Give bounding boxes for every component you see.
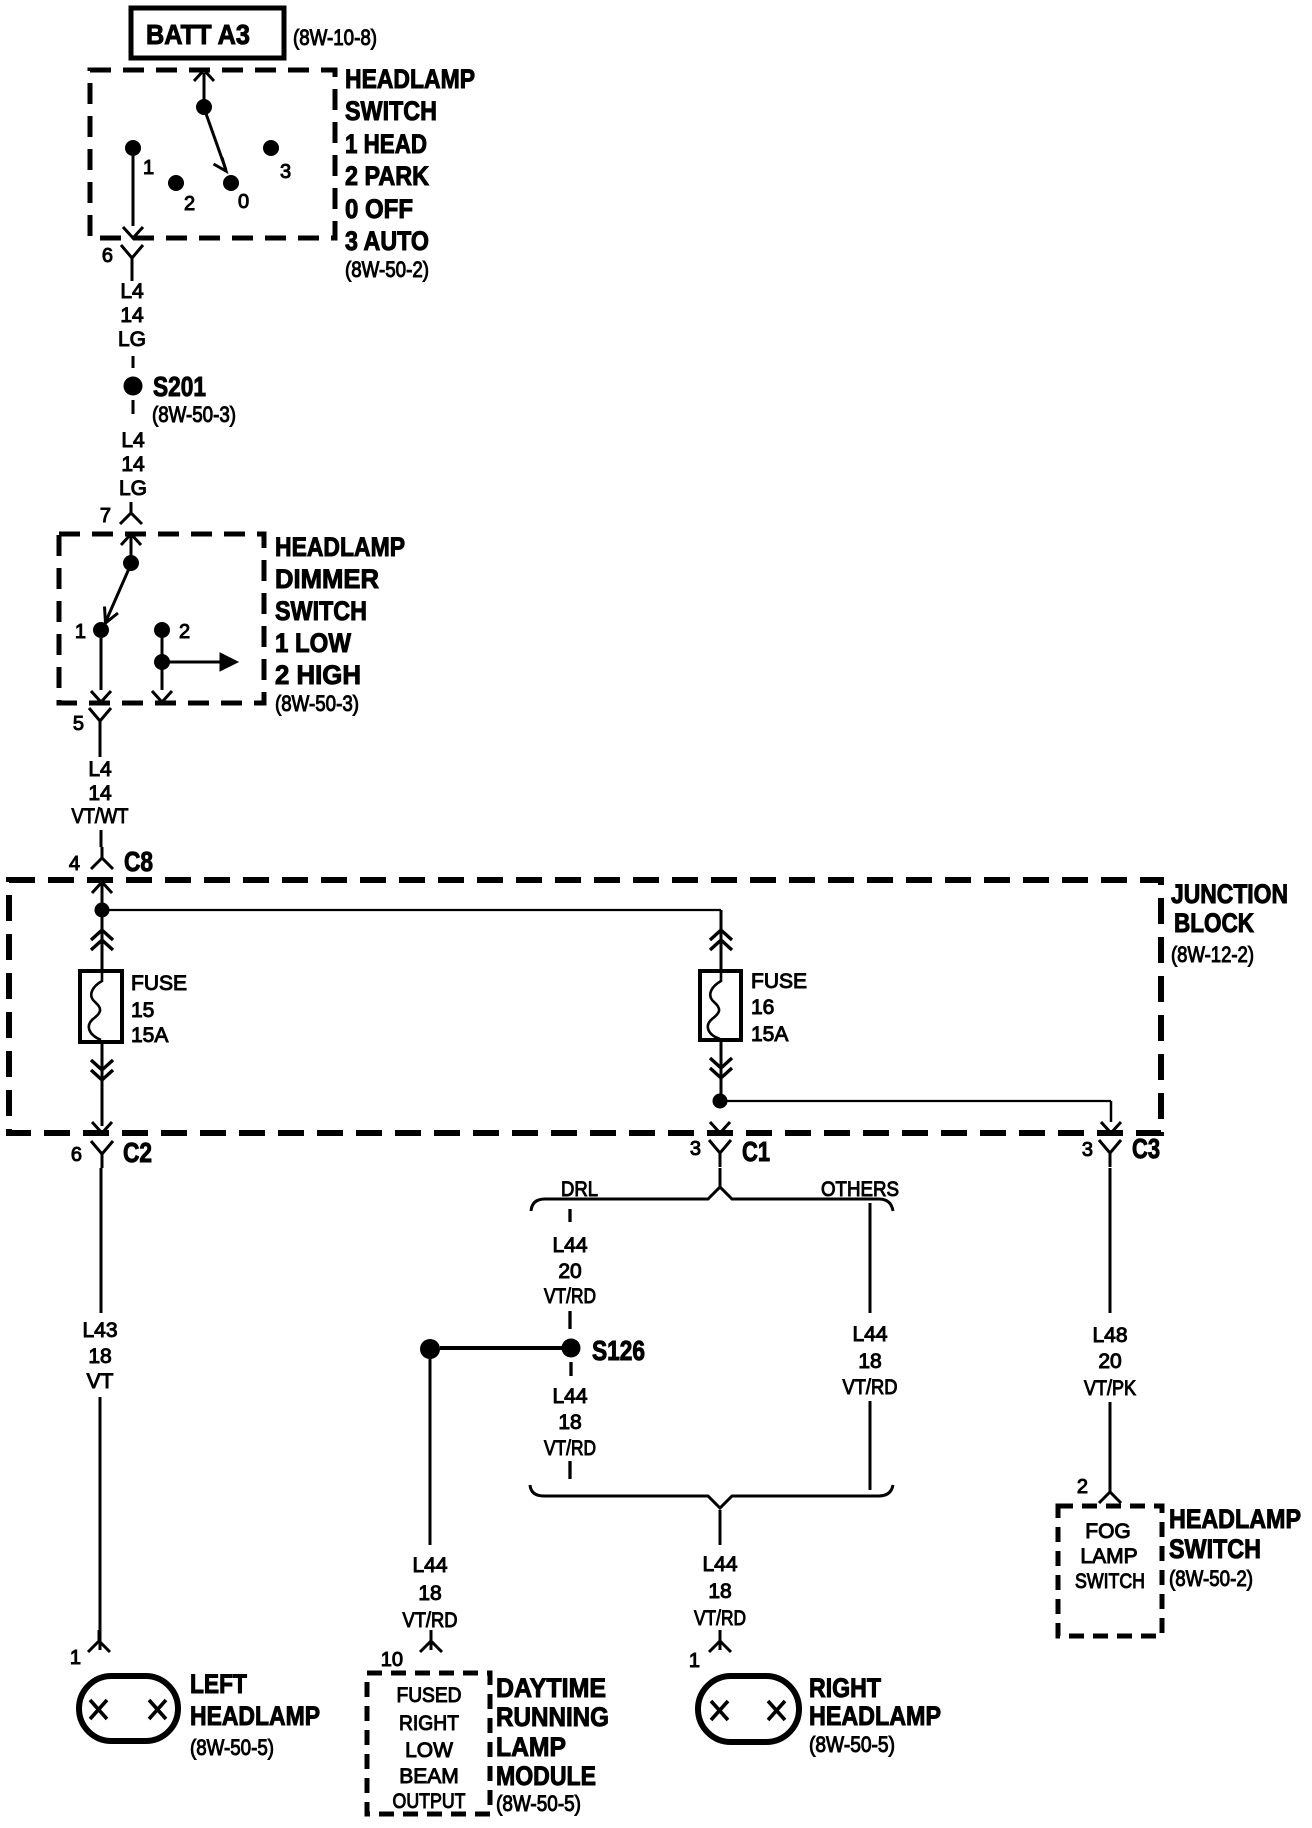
left headlamp filament X left bbox=[90, 1700, 107, 1719]
svg-text:20: 20 bbox=[1098, 1350, 1121, 1373]
svg-text:(8W-50-3): (8W-50-3) bbox=[152, 402, 236, 427]
svg-text:VT/WT: VT/WT bbox=[72, 805, 129, 828]
dimmer lever arrowhead bbox=[105, 607, 119, 624]
wire from dimmer contact 1 down bbox=[100, 638, 103, 690]
lever arrowhead bbox=[214, 158, 227, 172]
fuse 16 element squiggle bbox=[708, 971, 721, 1039]
branch wire turning down to fuse 16 bbox=[720, 910, 723, 971]
contact 0 bbox=[223, 175, 239, 191]
svg-text:HEADLAMP: HEADLAMP bbox=[809, 1701, 941, 1731]
svg-text:(8W-50-5): (8W-50-5) bbox=[809, 1732, 895, 1757]
svg-text:S126: S126 bbox=[592, 1335, 645, 1366]
svg-text:1: 1 bbox=[689, 1650, 700, 1672]
svg-text:LAMP: LAMP bbox=[1080, 1545, 1137, 1568]
svg-text:VT/PK: VT/PK bbox=[1084, 1377, 1136, 1400]
svg-text:SWITCH: SWITCH bbox=[275, 596, 367, 626]
fuse 15 box bbox=[80, 971, 122, 1042]
svg-text:FUSE: FUSE bbox=[751, 970, 807, 993]
svg-text:2: 2 bbox=[184, 193, 195, 215]
arrowhead up at switch box top border bbox=[194, 70, 214, 81]
svg-text:6: 6 bbox=[102, 245, 113, 267]
dimmer contact 1 bbox=[93, 622, 109, 638]
svg-text:2 PARK: 2 PARK bbox=[345, 161, 429, 191]
bus wire from fuse 16 node to C3 bbox=[720, 1100, 1111, 1102]
svg-text:10: 10 bbox=[381, 1649, 403, 1671]
svg-text:FUSED: FUSED bbox=[397, 1684, 462, 1707]
svg-text:18: 18 bbox=[858, 1350, 881, 1373]
svg-text:S201: S201 bbox=[153, 371, 206, 402]
svg-text:15A: 15A bbox=[131, 1024, 168, 1047]
svg-text:20: 20 bbox=[558, 1260, 581, 1283]
svg-text:JUNCTION: JUNCTION bbox=[1171, 879, 1288, 909]
svg-text:L44: L44 bbox=[552, 1385, 587, 1408]
connector pin 6 (female) bbox=[121, 245, 143, 272]
fog lamp switch dashed box bbox=[1058, 1506, 1162, 1636]
svg-text:L4: L4 bbox=[121, 429, 145, 452]
dimmer high-beam arrow wire bbox=[162, 661, 220, 664]
svg-text:15: 15 bbox=[131, 999, 154, 1022]
svg-text:BLOCK: BLOCK bbox=[1174, 908, 1254, 938]
svg-text:VT/RD: VT/RD bbox=[544, 1437, 596, 1460]
svg-text:3: 3 bbox=[690, 1138, 701, 1160]
arrowhead down at C1 exit bbox=[710, 1122, 730, 1133]
connector C8 (male) bbox=[91, 847, 113, 869]
svg-text:(8W-10-8): (8W-10-8) bbox=[293, 25, 377, 50]
connector chevrons below fuse 15 bbox=[91, 1060, 113, 1080]
svg-text:LOW: LOW bbox=[405, 1739, 453, 1762]
connector pin 7 (male) bbox=[120, 502, 142, 524]
svg-text:2: 2 bbox=[1077, 1476, 1088, 1498]
DRL branch wire segment bbox=[568, 1209, 571, 1222]
fuse 15 element squiggle bbox=[89, 971, 102, 1040]
svg-text:1: 1 bbox=[70, 1647, 81, 1669]
left headlamp bulb outline bbox=[79, 1676, 178, 1741]
OTHERS branch wire upper bbox=[869, 1203, 872, 1313]
svg-text:C3: C3 bbox=[1132, 1133, 1160, 1164]
dimmer junction on contact 2 wire bbox=[154, 654, 170, 670]
svg-text:L44: L44 bbox=[702, 1553, 737, 1576]
headlamp dimmer switch dashed box bbox=[59, 534, 264, 703]
svg-text:(8W-50-3): (8W-50-3) bbox=[275, 691, 359, 716]
wire to right headlamp bbox=[719, 1632, 722, 1650]
svg-text:DAYTIME: DAYTIME bbox=[496, 1673, 606, 1703]
wire segment below S201 bbox=[132, 400, 135, 414]
svg-text:FUSE: FUSE bbox=[131, 972, 187, 995]
svg-text:L48: L48 bbox=[1092, 1324, 1127, 1347]
svg-text:L43: L43 bbox=[82, 1319, 117, 1342]
svg-text:2: 2 bbox=[179, 621, 190, 643]
wire from contact 1 down to pin 6 bbox=[132, 156, 135, 226]
svg-text:DIMMER: DIMMER bbox=[275, 564, 379, 594]
svg-text:7: 7 bbox=[100, 505, 111, 527]
arrowhead down at dimmer bottom border bbox=[91, 691, 111, 702]
wire from switch wiper to BATT A3 bbox=[203, 73, 206, 107]
bus wire from node to fuse 16 branch bbox=[102, 909, 721, 911]
wire S126 to DRL module node bbox=[440, 1346, 562, 1350]
svg-text:18: 18 bbox=[88, 1345, 111, 1368]
wire L4 segment below pin 6 bbox=[131, 272, 134, 281]
svg-text:VT/RD: VT/RD bbox=[544, 1285, 596, 1308]
svg-text:L44: L44 bbox=[412, 1554, 447, 1577]
connector C1 (female) bbox=[709, 1140, 731, 1167]
connector C2 (female) bbox=[91, 1141, 113, 1168]
top split bracket bbox=[531, 1187, 893, 1211]
svg-text:SWITCH: SWITCH bbox=[1169, 1534, 1261, 1564]
svg-text:18: 18 bbox=[708, 1580, 731, 1603]
wire fuse 16 to node bbox=[720, 1040, 723, 1101]
right headlamp filament X left bbox=[711, 1701, 728, 1720]
connector chevrons above fuse 15 bbox=[91, 930, 113, 950]
svg-text:3: 3 bbox=[280, 161, 291, 183]
splice S201 bbox=[124, 377, 143, 396]
svg-text:SWITCH: SWITCH bbox=[1075, 1570, 1145, 1593]
left headlamp filament X right bbox=[149, 1700, 166, 1719]
node at fuse 15 feed bbox=[95, 903, 110, 918]
svg-text:1 LOW: 1 LOW bbox=[275, 628, 351, 658]
svg-text:(8W-50-2): (8W-50-2) bbox=[345, 257, 429, 282]
svg-text:L4: L4 bbox=[120, 280, 144, 303]
right headlamp bulb outline bbox=[698, 1676, 799, 1742]
wire down to C3 exit bbox=[1110, 1101, 1113, 1122]
contact 2 bbox=[168, 175, 184, 191]
svg-text:1 HEAD: 1 HEAD bbox=[345, 129, 427, 159]
svg-text:6: 6 bbox=[71, 1144, 82, 1166]
contact 1 bbox=[125, 140, 141, 156]
svg-text:BEAM: BEAM bbox=[399, 1765, 459, 1788]
connector pin 5 (female) bbox=[89, 708, 111, 735]
svg-text:RIGHT: RIGHT bbox=[809, 1673, 881, 1703]
svg-text:1: 1 bbox=[143, 157, 154, 179]
svg-text:3 AUTO: 3 AUTO bbox=[345, 226, 429, 256]
svg-text:(8W-50-2): (8W-50-2) bbox=[1169, 1566, 1253, 1591]
svg-text:18: 18 bbox=[418, 1582, 441, 1605]
svg-text:HEADLAMP: HEADLAMP bbox=[345, 64, 475, 94]
fuse 16 box bbox=[700, 971, 741, 1040]
svg-text:4: 4 bbox=[69, 853, 80, 875]
headlamp switch wiper contact bbox=[196, 99, 212, 115]
svg-text:VT/RD: VT/RD bbox=[694, 1607, 746, 1630]
svg-text:LEFT: LEFT bbox=[190, 1669, 247, 1699]
svg-text:0: 0 bbox=[238, 191, 249, 213]
OTHERS branch wire lower bbox=[869, 1401, 872, 1490]
wire C3 down bbox=[1109, 1168, 1112, 1313]
wire fuse 15 to C2 bbox=[101, 1041, 104, 1126]
node at fuse 16 output bbox=[713, 1094, 728, 1109]
dimmer high-beam arrowhead (filled) bbox=[220, 653, 238, 671]
svg-text:VT/RD: VT/RD bbox=[843, 1376, 898, 1399]
svg-text:VT/RD: VT/RD bbox=[403, 1609, 458, 1632]
wire node to DRL module bbox=[429, 1359, 432, 1545]
connector chevrons below fuse 16 bbox=[710, 1058, 732, 1078]
wire segment below S126 bbox=[569, 1362, 572, 1376]
svg-text:5: 5 bbox=[73, 713, 84, 735]
wire above C8 bbox=[100, 830, 103, 847]
wire to DRL module pin 10 bbox=[430, 1633, 433, 1650]
wire segment above S201 bbox=[132, 356, 135, 368]
svg-text:C8: C8 bbox=[124, 846, 153, 877]
svg-text:L4: L4 bbox=[88, 758, 112, 781]
svg-text:1: 1 bbox=[75, 621, 86, 643]
svg-text:HEADLAMP: HEADLAMP bbox=[190, 1701, 320, 1731]
svg-text:2 HIGH: 2 HIGH bbox=[275, 660, 361, 690]
svg-text:0 OFF: 0 OFF bbox=[345, 194, 413, 224]
battery feed box BATT A3 bbox=[131, 8, 284, 58]
arrowhead down at C2 exit bbox=[92, 1122, 112, 1133]
dimmer contact 2 bbox=[154, 622, 170, 638]
svg-text:(8W-50-5): (8W-50-5) bbox=[496, 1791, 581, 1816]
arrowhead down at dimmer bottom border (2) bbox=[152, 691, 172, 702]
svg-text:3: 3 bbox=[1082, 1139, 1093, 1161]
svg-text:16: 16 bbox=[751, 996, 774, 1019]
wire from dimmer contact 2 down bbox=[161, 638, 164, 690]
svg-text:L44: L44 bbox=[852, 1323, 887, 1346]
svg-text:18: 18 bbox=[558, 1411, 581, 1434]
svg-text:(8W-50-5): (8W-50-5) bbox=[190, 1735, 274, 1760]
connector C3 (female) bbox=[1099, 1140, 1121, 1167]
dimmer lever toward contact 1 bbox=[106, 564, 131, 621]
svg-text:C2: C2 bbox=[123, 1137, 152, 1168]
connector pin 1 left headlamp (male) bbox=[88, 1630, 110, 1652]
svg-text:OUTPUT: OUTPUT bbox=[393, 1790, 466, 1813]
daytime running lamp module dashed box bbox=[367, 1673, 490, 1814]
connector pin 10 (male) bbox=[420, 1630, 442, 1652]
wire C1 down to bracket bbox=[719, 1168, 722, 1188]
svg-text:LG: LG bbox=[119, 477, 147, 500]
svg-text:14: 14 bbox=[120, 304, 144, 327]
svg-text:15A: 15A bbox=[751, 1023, 788, 1046]
arrowhead up inside junction block at C8 bbox=[92, 882, 112, 893]
arrowhead up entering dimmer box bbox=[121, 534, 141, 545]
svg-text:14: 14 bbox=[121, 453, 145, 476]
svg-text:RIGHT: RIGHT bbox=[399, 1712, 459, 1735]
switch lever toward position 0 bbox=[204, 108, 226, 170]
svg-text:MODULE: MODULE bbox=[496, 1761, 596, 1791]
svg-text:(8W-12-2): (8W-12-2) bbox=[1171, 942, 1254, 967]
svg-text:L44: L44 bbox=[552, 1234, 587, 1257]
splice S126 bbox=[562, 1339, 581, 1358]
wire to left headlamp bbox=[99, 1397, 102, 1650]
node for DRL module branch bbox=[420, 1339, 440, 1359]
wire below merge bracket bbox=[719, 1510, 722, 1545]
svg-text:14: 14 bbox=[88, 782, 112, 805]
svg-text:LAMP: LAMP bbox=[496, 1732, 566, 1762]
contact 3 bbox=[263, 140, 279, 156]
svg-text:SWITCH: SWITCH bbox=[345, 96, 437, 126]
connector pin 2 fog switch (male) bbox=[1099, 1481, 1121, 1503]
svg-text:HEADLAMP: HEADLAMP bbox=[275, 532, 405, 562]
junction block dashed box bbox=[9, 880, 1161, 1133]
wire node to fuse 15 bbox=[101, 910, 104, 971]
wire segment above S126 bbox=[568, 1311, 571, 1329]
svg-text:BATT A3: BATT A3 bbox=[146, 19, 250, 50]
svg-text:VT: VT bbox=[87, 1370, 114, 1393]
wire segment to bottom bracket bbox=[568, 1461, 571, 1479]
arrowhead down at C3 exit bbox=[1101, 1122, 1121, 1133]
svg-text:LG: LG bbox=[118, 328, 146, 351]
right headlamp filament X right bbox=[768, 1701, 785, 1720]
svg-text:HEADLAMP: HEADLAMP bbox=[1169, 1504, 1301, 1534]
wire to fog lamp switch bbox=[1109, 1402, 1112, 1481]
svg-text:C1: C1 bbox=[742, 1136, 770, 1167]
connector pin 1 right headlamp (male) bbox=[709, 1630, 731, 1652]
svg-text:FOG: FOG bbox=[1085, 1520, 1131, 1543]
arrowhead down at switch box bottom border bbox=[123, 227, 143, 238]
wire below pin 5 bbox=[99, 735, 102, 757]
wire C8 entry down to node bbox=[101, 882, 104, 910]
dimmer wiper contact bbox=[123, 555, 139, 571]
svg-text:RUNNING: RUNNING bbox=[496, 1702, 609, 1732]
wire from dimmer border to wiper bbox=[130, 534, 133, 558]
bottom merge bracket bbox=[530, 1485, 893, 1508]
wire C2 down bbox=[100, 1168, 103, 1313]
connector chevrons above fuse 16 bbox=[710, 930, 732, 950]
headlamp switch dashed box bbox=[90, 70, 335, 238]
